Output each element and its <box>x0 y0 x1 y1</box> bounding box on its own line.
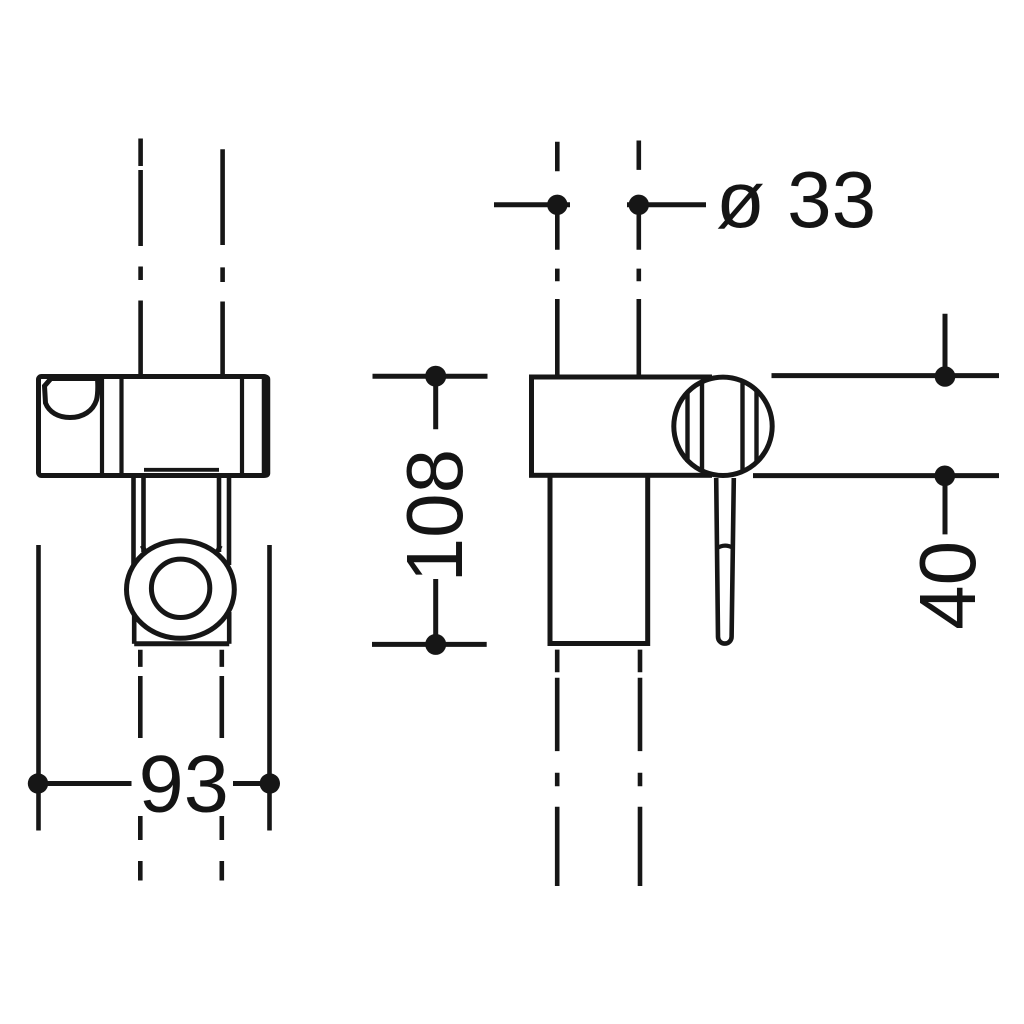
svg-text:ø 33: ø 33 <box>716 155 876 244</box>
svg-text:108: 108 <box>390 449 479 582</box>
svg-text:40: 40 <box>903 541 992 630</box>
svg-text:93: 93 <box>139 740 229 830</box>
